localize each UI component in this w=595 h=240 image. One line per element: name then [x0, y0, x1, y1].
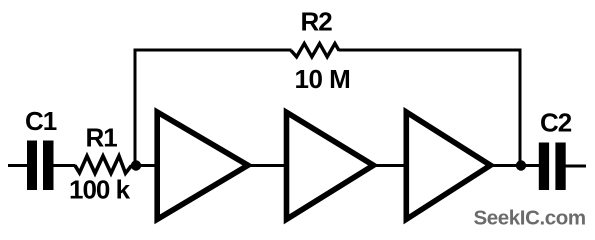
- amplifier U3: [406, 112, 490, 219]
- svg-text:100 k: 100 k: [69, 175, 131, 205]
- svg-text:SeekIC.com: SeekIC.com: [474, 207, 586, 230]
- wire U3 to node B: [493, 164, 539, 167]
- resistor R2: [291, 44, 339, 57]
- wire feedback top right: [339, 49, 522, 52]
- wire feedback top left: [134, 49, 292, 52]
- wire feedback right vertical: [519, 50, 522, 166]
- wire output right: [566, 165, 587, 168]
- svg-text:10 M: 10 M: [295, 64, 351, 94]
- resistor R1: [75, 156, 132, 173]
- capacitor C1: [27, 141, 54, 191]
- amplifier U1: [157, 112, 248, 219]
- amplifier U2: [287, 112, 374, 219]
- wire C1 to R1: [53, 164, 76, 167]
- node B (junction dot): [516, 160, 526, 170]
- node A (junction dot): [131, 160, 141, 170]
- wire R1 to node A: [131, 164, 158, 167]
- svg-text:C1: C1: [25, 106, 57, 136]
- wire input left: [8, 164, 28, 167]
- capacitor C2: [539, 143, 566, 191]
- wire U2 to U3: [376, 164, 407, 167]
- svg-text:R1: R1: [86, 123, 118, 153]
- wire U1 to U2: [250, 164, 288, 167]
- wire feedback left vertical: [134, 50, 137, 166]
- svg-text:R2: R2: [301, 6, 333, 36]
- svg-text:C2: C2: [540, 108, 572, 138]
